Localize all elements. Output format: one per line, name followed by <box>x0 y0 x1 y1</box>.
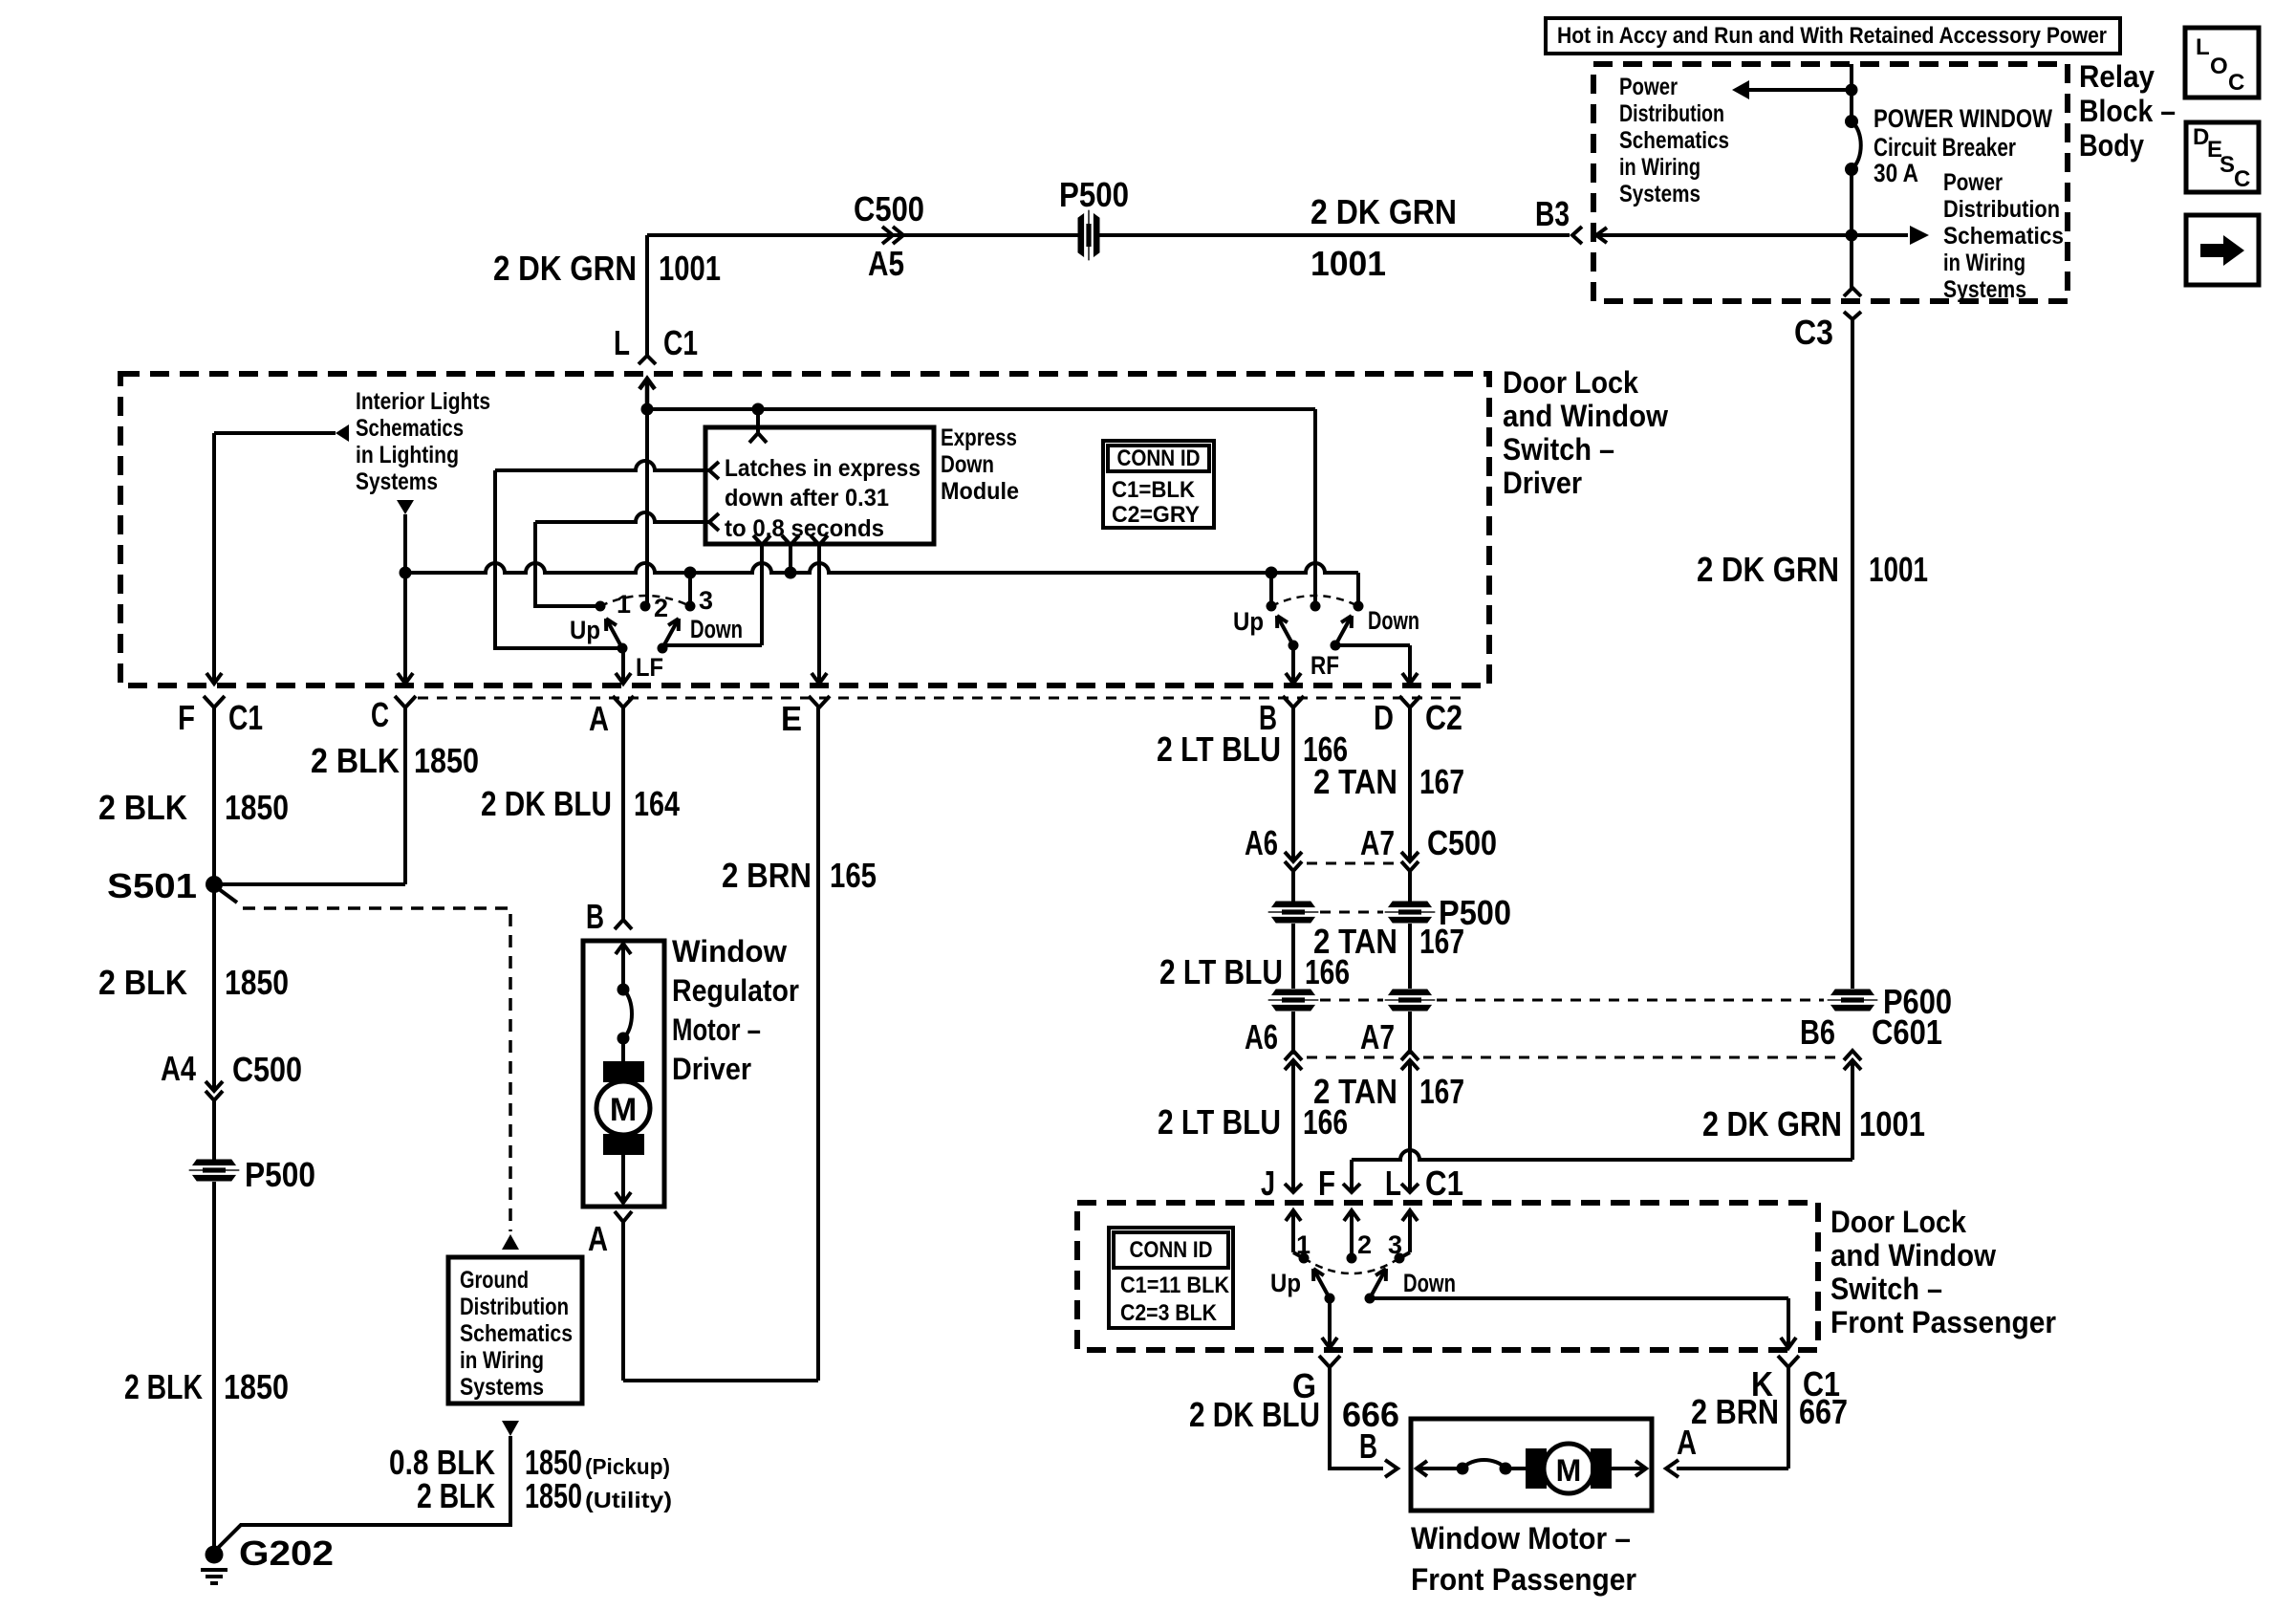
relay block - body dashed box <box>1593 64 2068 301</box>
svg-text:Regulator: Regulator <box>672 973 799 1008</box>
svg-text:B: B <box>586 897 604 936</box>
svg-text:Distribution: Distribution <box>1943 196 2060 223</box>
svg-text:Schematics: Schematics <box>356 415 464 442</box>
grommet P600 on C3 wire <box>1828 990 1877 1011</box>
svg-text:Switch –: Switch – <box>1830 1272 1942 1306</box>
connector C601 chevrons on C3 wire <box>1844 1051 1861 1060</box>
svg-text:down after 0.31: down after 0.31 <box>725 485 889 511</box>
switch LF up blade <box>606 619 622 648</box>
connector C601 chevrons on B wire (up) <box>1285 1051 1302 1060</box>
splice S501 <box>206 876 223 893</box>
svg-text:C: C <box>371 695 389 734</box>
svg-text:A: A <box>589 699 609 738</box>
wire: RF down contact to pin D <box>1335 643 1410 647</box>
svg-text:30 A: 30 A <box>1874 159 1918 187</box>
svg-text:1001: 1001 <box>1859 1104 1925 1143</box>
wire: ground box to G202 <box>214 1436 510 1552</box>
arrow to motor pin A <box>621 1186 625 1201</box>
svg-text:2 BRN: 2 BRN <box>1691 1392 1779 1431</box>
grommet P500 on B wire <box>1268 902 1318 923</box>
label box: Hot in Accy and Run and With Retained Accessory Power <box>1546 18 2120 54</box>
wire: express pin3 arrow to pin E <box>817 669 821 682</box>
svg-text:1850: 1850 <box>225 788 289 827</box>
svg-text:(Pickup): (Pickup) <box>585 1454 670 1479</box>
dashed line between P500 grommets <box>1320 911 1383 914</box>
svg-text:Up: Up <box>1233 607 1264 636</box>
arrow at pin F <box>212 660 216 682</box>
svg-text:in Wiring: in Wiring <box>1943 250 2025 276</box>
svg-text:2 BLK: 2 BLK <box>98 963 187 1002</box>
svg-text:B3: B3 <box>1535 194 1570 233</box>
svg-text:S501: S501 <box>107 866 197 905</box>
express module top pin <box>756 409 760 432</box>
wire: express bottom pin 3 down to pin E <box>817 545 821 672</box>
svg-text:A6: A6 <box>1245 823 1278 862</box>
svg-text:B6: B6 <box>1800 1012 1835 1052</box>
svg-text:2 LT BLU: 2 LT BLU <box>1158 1102 1281 1142</box>
svg-text:Latches in express: Latches in express <box>725 455 921 482</box>
svg-text:2 DK BLU: 2 DK BLU <box>1189 1395 1320 1434</box>
wire: pin C branch down <box>403 514 407 673</box>
svg-text:Down: Down <box>1368 606 1419 635</box>
wire: express pin to LF terminal 1 <box>535 512 709 522</box>
svg-text:in Wiring: in Wiring <box>460 1347 544 1374</box>
LOC legend box <box>2185 28 2259 98</box>
svg-text:1: 1 <box>617 590 631 619</box>
svg-text:S: S <box>2220 152 2235 178</box>
off-page triangle into ground distribution box <box>502 1234 519 1250</box>
arrow into switch terminal 3 <box>1408 1212 1412 1252</box>
wire: B to P600 grommet <box>1291 924 1295 989</box>
svg-text:Systems: Systems <box>460 1374 544 1401</box>
svg-text:Front Passenger: Front Passenger <box>1411 1562 1636 1597</box>
wire: pin F branch down <box>212 433 216 673</box>
circuit breaker POWER WINDOW 30 A <box>1845 115 1858 128</box>
wire: top bus corner down to RF terminal 2 <box>1313 409 1317 606</box>
conn id box driver <box>1103 441 1214 528</box>
wire: 2 DK GRN 1001 top feed <box>647 233 1570 237</box>
switch RF up blade <box>1277 616 1293 645</box>
door lock and window switch front passenger dashed box <box>1077 1203 1818 1350</box>
dashed connector line C500 <box>1307 862 1397 865</box>
express module left pins <box>709 462 719 479</box>
svg-text:166: 166 <box>1303 1102 1348 1142</box>
svg-text:A4: A4 <box>161 1049 196 1088</box>
wire: up common to pin G <box>1328 1298 1332 1346</box>
svg-text:Door Lock: Door Lock <box>1830 1205 1966 1239</box>
svg-text:2 DK GRN: 2 DK GRN <box>1697 550 1839 589</box>
switch LF terminals <box>596 601 606 612</box>
svg-text:3: 3 <box>699 586 713 615</box>
svg-text:to 0.8 seconds: to 0.8 seconds <box>725 515 884 542</box>
svg-text:M: M <box>610 1092 637 1128</box>
passenger down blade <box>1370 1269 1386 1298</box>
svg-text:167: 167 <box>1419 1072 1464 1111</box>
wire: motor A to pin K <box>1677 1467 1788 1470</box>
svg-text:Driver: Driver <box>1503 466 1582 500</box>
svg-text:POWER WINDOW: POWER WINDOW <box>1874 104 2052 133</box>
svg-text:1850: 1850 <box>224 1367 289 1406</box>
svg-text:2 BRN: 2 BRN <box>722 856 812 895</box>
svg-text:2 LT BLU: 2 LT BLU <box>1159 952 1283 991</box>
svg-text:C1: C1 <box>1425 1164 1463 1203</box>
svg-text:Ground: Ground <box>460 1267 529 1294</box>
wire: express bottom pin 2 to bus <box>789 545 792 573</box>
svg-text:Interior Lights: Interior Lights <box>356 388 490 415</box>
svg-text:Down: Down <box>690 615 743 643</box>
connector B3 chevron at relay block border <box>1572 227 1582 244</box>
dashed line P600 row <box>1320 999 1383 1002</box>
svg-text:A7: A7 <box>1360 823 1395 862</box>
grommet P500 (left) <box>189 1160 239 1181</box>
svg-text:F: F <box>1318 1164 1335 1203</box>
wire: main vertical to LF terminal 2 <box>645 409 649 606</box>
svg-text:2 DK GRN: 2 DK GRN <box>1702 1104 1842 1143</box>
connector C601 chevrons on D wire (up) <box>1401 1051 1419 1060</box>
svg-text:Motor –: Motor – <box>672 1012 761 1047</box>
wire: pin C to splice <box>403 707 407 884</box>
ground distribution schematics box <box>448 1257 582 1403</box>
wire: bus to LF terminal 3 <box>688 573 692 606</box>
arrow inside motor to pin A <box>1612 1467 1644 1470</box>
svg-text:667: 667 <box>1799 1392 1848 1431</box>
svg-text:C2=GRY: C2=GRY <box>1112 502 1200 528</box>
off-page triangle from lighting systems <box>397 500 414 514</box>
svg-text:CONN ID: CONN ID <box>1117 446 1201 471</box>
arrow at pin C <box>403 660 407 682</box>
svg-text:2: 2 <box>1357 1230 1372 1259</box>
svg-text:2 DK BLU: 2 DK BLU <box>481 784 612 823</box>
svg-text:E: E <box>781 699 802 738</box>
svg-text:166: 166 <box>1305 952 1350 991</box>
svg-text:Power: Power <box>1943 169 2003 196</box>
wire: S501 down <box>212 884 216 1090</box>
svg-text:Express: Express <box>941 424 1017 451</box>
wire B3 feed inside relay block <box>1598 233 1852 237</box>
bus wire with hops across driver switch <box>405 563 1358 573</box>
arrow into switch terminal 2 <box>1350 1212 1354 1258</box>
svg-text:B: B <box>1359 1426 1377 1466</box>
svg-text:C: C <box>2234 166 2250 192</box>
svg-text:1001: 1001 <box>1869 550 1928 589</box>
svg-text:C1=11 BLK: C1=11 BLK <box>1120 1273 1230 1298</box>
wire: bus to RF terminal 1 <box>1269 573 1273 606</box>
svg-text:P500: P500 <box>245 1155 315 1194</box>
arrow inside motor to pin B <box>1419 1467 1462 1470</box>
svg-text:Systems: Systems <box>1619 181 1700 207</box>
connector C3 at relay block exit <box>1844 288 1861 296</box>
svg-text:C3: C3 <box>1794 313 1833 352</box>
wire: motor A loop to pin E wire <box>621 1222 625 1381</box>
express down module box <box>705 427 934 544</box>
svg-text:1: 1 <box>1296 1230 1310 1259</box>
svg-text:LF: LF <box>636 653 663 682</box>
svg-text:Window Motor –: Window Motor – <box>1411 1521 1631 1556</box>
svg-text:2 DK GRN: 2 DK GRN <box>493 249 637 288</box>
svg-text:Down: Down <box>1403 1269 1456 1297</box>
svg-text:CONN ID: CONN ID <box>1130 1237 1213 1263</box>
motor M symbol <box>621 1038 625 1063</box>
passenger switch terminals <box>1299 1253 1310 1264</box>
svg-text:P500: P500 <box>1059 175 1129 214</box>
arrow to power distribution (right) <box>1910 226 1929 245</box>
svg-text:167: 167 <box>1419 922 1464 961</box>
svg-text:D: D <box>1374 698 1394 737</box>
pin B connector <box>1283 696 1304 707</box>
switch LF down blade <box>662 619 679 648</box>
svg-text:C500: C500 <box>1427 823 1497 862</box>
connector plane dashed line C1/C2 <box>418 697 1467 700</box>
motor thermal breaker <box>617 984 630 996</box>
svg-text:(Utility): (Utility) <box>585 1488 672 1512</box>
pin C connector <box>395 696 416 707</box>
svg-text:2 DK GRN: 2 DK GRN <box>1310 192 1457 231</box>
svg-text:Door Lock: Door Lock <box>1503 365 1638 400</box>
svg-text:C2: C2 <box>1425 698 1462 737</box>
dashed gang arc LF <box>600 596 690 606</box>
svg-text:Down: Down <box>941 451 994 478</box>
door lock and window switch driver dashed box <box>120 374 1489 685</box>
window regulator motor driver box <box>583 941 664 1207</box>
svg-text:3: 3 <box>1388 1230 1402 1259</box>
grommet P500 <box>1078 210 1099 260</box>
node: top bus junction <box>641 403 654 416</box>
svg-text:167: 167 <box>1419 762 1464 801</box>
wire: B to P500 grommet <box>1291 871 1295 902</box>
motor M symbol (passenger) <box>1505 1467 1527 1470</box>
svg-text:RF: RF <box>1310 651 1339 680</box>
svg-text:Relay: Relay <box>2079 59 2155 94</box>
wire: bus corner to RF terminal 3 <box>1356 573 1360 606</box>
wire: pin D down to C500 <box>1408 707 1412 859</box>
pin G connector <box>1319 1356 1340 1367</box>
wire: to P500 grommet <box>212 1100 216 1160</box>
svg-text:Module: Module <box>941 478 1019 505</box>
svg-text:2 LT BLU: 2 LT BLU <box>1157 729 1281 769</box>
svg-text:A: A <box>588 1219 608 1258</box>
svg-text:1850: 1850 <box>225 963 289 1002</box>
switch LF common contacts <box>617 643 628 654</box>
wire: top bus to RF switch <box>647 407 1315 411</box>
connector chevron motor pin A <box>1666 1460 1679 1477</box>
svg-text:C1: C1 <box>228 698 263 737</box>
svg-text:165: 165 <box>830 856 877 895</box>
ground G202 <box>206 1546 224 1564</box>
wire: pin E down <box>816 707 820 1381</box>
svg-text:A7: A7 <box>1360 1017 1395 1056</box>
svg-text:and Window: and Window <box>1503 399 1668 433</box>
svg-text:Systems: Systems <box>1943 276 2026 303</box>
svg-text:L: L <box>1385 1164 1401 1203</box>
ground symbol <box>201 1568 227 1572</box>
svg-text:1001: 1001 <box>1310 244 1386 283</box>
svg-text:Hot in Accy and Run and With R: Hot in Accy and Run and With Retained Ac… <box>1557 23 2107 49</box>
wire: D to C601 <box>1408 1012 1412 1055</box>
off-page triangle below ground distribution box <box>502 1421 519 1436</box>
dashed gang arc RF <box>1271 596 1358 606</box>
svg-text:M: M <box>1556 1453 1582 1488</box>
svg-text:A5: A5 <box>868 244 904 283</box>
pin E connector <box>809 696 830 707</box>
wire: B down to passenger switch pin J <box>1291 1060 1295 1191</box>
svg-text:G202: G202 <box>239 1534 334 1573</box>
switch RF terminals <box>1267 601 1277 612</box>
wire: D to P600 grommet <box>1408 924 1412 989</box>
svg-text:Up: Up <box>570 616 600 644</box>
svg-text:2 BLK: 2 BLK <box>311 741 400 780</box>
connector L C1 into driver switch <box>639 356 656 364</box>
wire: pin F down to splice S501 <box>212 707 216 884</box>
dashed branch from S501 to ground distribution <box>219 889 237 903</box>
svg-text:Up: Up <box>1270 1269 1301 1297</box>
wire to interior lights schematics <box>214 431 336 435</box>
svg-text:C500: C500 <box>854 189 924 228</box>
svg-text:1001: 1001 <box>659 249 721 288</box>
wire: down to corner <box>1851 1060 1854 1160</box>
passenger up blade <box>1313 1269 1330 1298</box>
svg-text:Schematics: Schematics <box>460 1320 573 1347</box>
svg-text:C500: C500 <box>232 1050 302 1089</box>
connector C500 chevrons on D wire <box>1401 852 1419 861</box>
dashed gang arc passenger <box>1304 1258 1399 1273</box>
pin K connector <box>1778 1356 1799 1367</box>
svg-text:Distribution: Distribution <box>1619 100 1724 127</box>
wire: down common to pin K <box>1370 1296 1788 1300</box>
wire: RF common to pin B <box>1291 648 1295 682</box>
svg-text:1850: 1850 <box>525 1476 582 1515</box>
pin A connector <box>613 696 634 707</box>
svg-text:F: F <box>178 698 195 737</box>
wire: horizontal to passenger switch pin F with hop <box>1352 1150 1852 1160</box>
svg-text:Block –: Block – <box>2079 94 2176 128</box>
svg-text:in Lighting: in Lighting <box>356 442 459 468</box>
wire: pin G to motor B <box>1330 1367 1383 1469</box>
svg-text:C1=BLK: C1=BLK <box>1112 477 1196 503</box>
connector C500 A5 chevrons <box>882 227 893 244</box>
svg-text:2 BLK: 2 BLK <box>124 1367 203 1406</box>
svg-text:Window: Window <box>672 934 787 968</box>
switch RF down blade <box>1335 616 1352 645</box>
svg-text:164: 164 <box>634 784 680 823</box>
grommet P500 on D wire <box>1385 902 1435 923</box>
connector chevron motor pin B <box>1385 1460 1397 1477</box>
wire: 2 DK GRN 1001 down right side <box>1851 319 1854 989</box>
svg-text:C: C <box>2228 70 2244 96</box>
wire: relay block vertical feed <box>1850 64 1853 121</box>
arrow into box from C1 <box>645 381 650 409</box>
pin F connector <box>204 696 225 707</box>
svg-text:in Wiring: in Wiring <box>1619 154 1700 181</box>
svg-text:C2=3 BLK: C2=3 BLK <box>1120 1300 1218 1326</box>
wire: B to C601 <box>1291 1012 1295 1055</box>
svg-text:C1: C1 <box>663 323 698 362</box>
svg-text:Driver: Driver <box>672 1052 751 1086</box>
arrow into switch terminal 1 <box>1291 1212 1295 1252</box>
pin D connector <box>1399 696 1420 707</box>
svg-text:Distribution: Distribution <box>460 1294 569 1320</box>
window motor front passenger box <box>1411 1419 1652 1511</box>
svg-text:Front Passenger: Front Passenger <box>1830 1305 2056 1339</box>
svg-text:Schematics: Schematics <box>1943 223 2064 250</box>
arrow into motor <box>621 946 625 990</box>
express module bottom pins <box>753 535 770 545</box>
svg-text:2 BLK: 2 BLK <box>98 788 187 827</box>
svg-text:J: J <box>1261 1164 1275 1203</box>
wire: pin B down to C500 <box>1291 707 1295 859</box>
svg-text:O: O <box>2210 54 2228 79</box>
grommet P600 on D wire <box>1385 990 1435 1011</box>
motor thermal breaker (passenger) <box>1457 1463 1469 1475</box>
switch RF common contacts <box>1289 641 1299 651</box>
grommet P600 on B wire <box>1268 990 1318 1011</box>
wire: P500 to G202 <box>212 1182 216 1555</box>
wire: D down to passenger switch pin L <box>1408 1060 1412 1191</box>
DESC legend box <box>2186 122 2259 192</box>
svg-text:L: L <box>2196 34 2210 60</box>
conn id box passenger <box>1109 1228 1233 1328</box>
dashed connector line C601 <box>1307 1056 1397 1059</box>
svg-text:Circuit Breaker: Circuit Breaker <box>1874 133 2016 162</box>
connector chevron at motor pin A <box>615 1211 632 1222</box>
svg-text:Systems: Systems <box>356 468 438 495</box>
junction dot <box>1846 84 1858 97</box>
connector C500 chevrons on B wire <box>1285 852 1302 861</box>
wire: D to P500 grommet <box>1408 871 1412 902</box>
svg-text:Switch –: Switch – <box>1503 432 1614 467</box>
svg-text:Body: Body <box>2079 128 2144 163</box>
arrow to power distribution (left) <box>1748 88 1852 92</box>
svg-text:Schematics: Schematics <box>1619 127 1729 154</box>
wire: express bottom pin 1 down to LF down contact <box>760 545 764 645</box>
svg-text:A6: A6 <box>1245 1017 1278 1056</box>
forward arrow legend box <box>2186 215 2259 285</box>
connector chevron at motor pin B <box>615 920 632 929</box>
svg-text:2 BLK: 2 BLK <box>417 1476 495 1515</box>
svg-text:and Window: and Window <box>1830 1238 1996 1273</box>
svg-text:Power: Power <box>1619 74 1678 100</box>
wire: express pin to LF up contact <box>495 461 709 470</box>
svg-text:1850: 1850 <box>414 741 479 780</box>
svg-text:2 TAN: 2 TAN <box>1313 762 1397 801</box>
svg-text:L: L <box>614 323 630 362</box>
wire: LF common to pin A <box>621 648 625 682</box>
passenger switch commons <box>1325 1294 1335 1304</box>
svg-text:A: A <box>1677 1423 1697 1462</box>
wire: pin A down to motor <box>621 707 625 920</box>
svg-text:C601: C601 <box>1872 1012 1942 1052</box>
